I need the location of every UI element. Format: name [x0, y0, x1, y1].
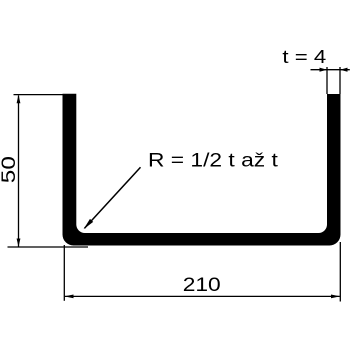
- radius leader line: [85, 167, 141, 228]
- dimension 50: top arrow: [17, 95, 21, 104]
- dimension 210: horizontal dimension line: [65, 295, 340, 297]
- dimension 210: right extension line: [339, 242, 341, 302]
- dimension 210: left arrow: [65, 295, 74, 299]
- dimension t=4: right arrow (outside, pointing left): [340, 68, 348, 72]
- dimension 50: vertical dimension line: [18, 96, 20, 247]
- dimension t=4: right extension line: [339, 67, 341, 94]
- dimension 50: bottom arrow: [17, 239, 21, 248]
- dimension t=4: left arrow (outside, pointing right): [320, 68, 328, 72]
- svg-text:R = 1/2 t až t: R = 1/2 t až t: [148, 150, 278, 171]
- radius leader arrow: [84, 219, 94, 229]
- svg-text:210: 210: [183, 275, 221, 296]
- dimension 50: bottom extension line: [8, 246, 89, 248]
- dimension t=4: horizontal dimension line: [311, 69, 350, 71]
- dimension 210: left extension line: [63, 245, 65, 301]
- U-channel profile: [63, 94, 341, 246]
- dimension 50: top extension line: [14, 94, 64, 96]
- dimension 210: right arrow: [331, 295, 340, 299]
- svg-text:t = 4: t = 4: [282, 48, 326, 68]
- dimension t=4: left extension line: [326, 67, 328, 94]
- svg-text:50: 50: [0, 156, 19, 183]
